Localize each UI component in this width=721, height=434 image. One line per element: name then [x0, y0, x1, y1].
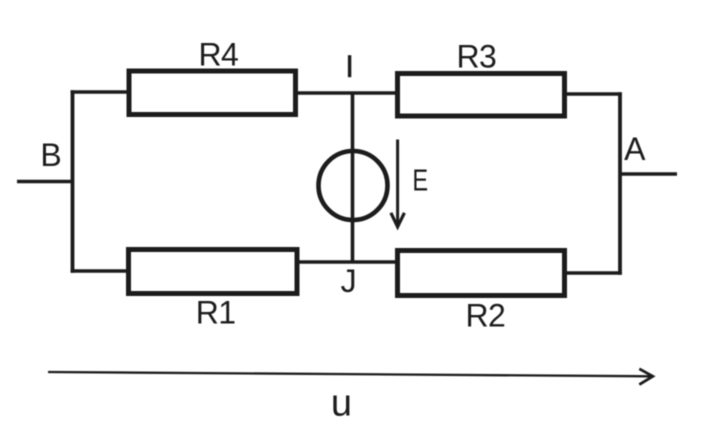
- svg-text:E: E: [412, 162, 428, 197]
- wire: bottom-left segment from R1 to left vertical: [71, 269, 130, 273]
- resistor R3: [398, 74, 565, 117]
- source E circle: [319, 151, 388, 220]
- node A label: [624, 131, 646, 167]
- svg-text:R4: R4: [198, 36, 238, 72]
- svg-text:B: B: [40, 137, 61, 173]
- label R2: [466, 298, 506, 334]
- wire: R4 to R3 through node I: [297, 91, 397, 95]
- wire: top-left segment to R4: [71, 90, 129, 94]
- node J label: [341, 263, 356, 299]
- svg-text:R2: R2: [466, 298, 506, 334]
- label R1: [196, 295, 236, 331]
- wire: middle vertical I to J: [351, 93, 355, 263]
- wire: R2 to R1 through node J: [297, 260, 397, 264]
- resistor R4: [129, 71, 296, 115]
- node I label: [348, 55, 351, 77]
- resistor R2: [398, 251, 565, 296]
- label R3: [456, 38, 496, 74]
- wire: right vertical to R2: [565, 271, 622, 275]
- svg-text:R1: R1: [196, 295, 236, 331]
- svg-text:A: A: [624, 131, 646, 167]
- svg-text:u: u: [331, 383, 352, 425]
- E direction arrow: [391, 140, 405, 227]
- label u: [331, 383, 352, 425]
- svg-text:J: J: [341, 263, 356, 299]
- label R4: [198, 36, 238, 72]
- node B label: [40, 137, 61, 173]
- label E: [412, 162, 428, 197]
- u reference arrow: [48, 369, 653, 385]
- resistor R1: [129, 250, 298, 294]
- wire: right vertical branch: [618, 92, 622, 275]
- wire: R3 to right vertical: [565, 92, 622, 96]
- wire: terminal A stub: [620, 172, 677, 175]
- svg-text:R3: R3: [456, 38, 496, 74]
- wire: left vertical branch: [71, 90, 75, 273]
- wire: terminal B stub: [17, 180, 72, 184]
